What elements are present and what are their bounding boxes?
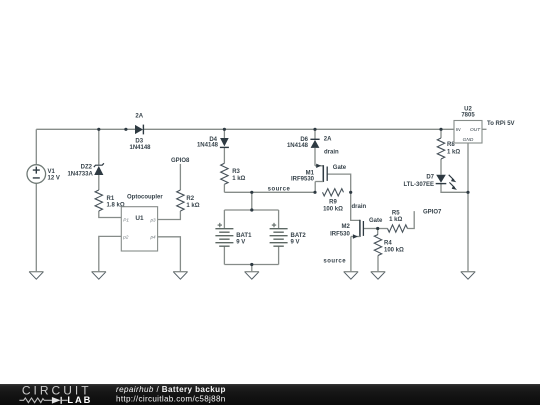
zener diode DZ2 1N4733A bbox=[67, 163, 103, 177]
wire battery tee down bbox=[251, 192, 253, 210]
svg-text:12 V: 12 V bbox=[48, 176, 60, 182]
svg-text:1 kΩ: 1 kΩ bbox=[186, 203, 199, 209]
node junction bbox=[97, 128, 100, 131]
wire M2 source to ground bbox=[350, 237, 352, 272]
wire M1 source to rail bbox=[314, 182, 316, 193]
wire V1 top stem bbox=[35, 129, 37, 164]
svg-text:V1: V1 bbox=[48, 169, 56, 175]
node junction bbox=[313, 128, 316, 131]
svg-text:100 kΩ: 100 kΩ bbox=[323, 207, 343, 213]
wire U1 pin4 to ground bbox=[158, 237, 181, 272]
svg-text:2A: 2A bbox=[324, 137, 332, 143]
battery BAT1 9V bbox=[215, 223, 252, 246]
wire D4 branch from rail bbox=[223, 129, 225, 138]
svg-text:U1: U1 bbox=[135, 215, 144, 222]
ground bbox=[173, 272, 187, 280]
battery BAT2 9V bbox=[270, 223, 307, 246]
optocoupler U1 bbox=[121, 194, 163, 251]
wire U2 OUT stub bbox=[482, 128, 487, 130]
wire battery bottom bar bbox=[224, 264, 278, 266]
svg-text:BAT2: BAT2 bbox=[291, 233, 307, 239]
ground bbox=[29, 272, 43, 280]
svg-text:source: source bbox=[268, 186, 291, 192]
diode D3 1N4148 2A bbox=[129, 114, 151, 152]
svg-text:Optocoupler: Optocoupler bbox=[127, 194, 163, 200]
node junction bbox=[439, 128, 442, 131]
wire D4 cathode to R3 bbox=[223, 147, 225, 163]
node junction bbox=[376, 227, 379, 230]
wire M2 gate lead to node bbox=[363, 228, 377, 230]
wire DZ2 branch from rail bbox=[98, 129, 100, 164]
node junction bbox=[250, 191, 253, 194]
svg-text:IRF9530: IRF9530 bbox=[291, 176, 315, 182]
svg-text:R1: R1 bbox=[107, 196, 115, 202]
LED D7 LTL-307EE bbox=[403, 174, 457, 190]
svg-text:p3: p3 bbox=[149, 217, 156, 222]
svg-text:LTL-307EE: LTL-307EE bbox=[403, 182, 434, 188]
wire D6 branch from rail bbox=[314, 129, 316, 139]
wire R9 right to M2 drain bbox=[351, 192, 360, 220]
svg-text:P1: P1 bbox=[123, 217, 129, 222]
wire gate node to R4 bbox=[377, 229, 379, 235]
resistor R4 100k bbox=[374, 235, 404, 256]
svg-text:1N4148: 1N4148 bbox=[287, 143, 309, 149]
svg-text:2A: 2A bbox=[135, 114, 143, 120]
wire U1 pin2 to ground bbox=[99, 236, 122, 271]
svg-text:GPIO7: GPIO7 bbox=[423, 209, 442, 215]
wire R8 to D7 bbox=[440, 159, 442, 175]
svg-text:1N4733A: 1N4733A bbox=[67, 172, 93, 178]
wire BAT1 top stem bbox=[223, 210, 225, 229]
wire U2 GND to ground bbox=[467, 143, 469, 272]
wire top rail left (V1 to D3 anode) bbox=[36, 128, 135, 130]
svg-text:LAB: LAB bbox=[67, 395, 92, 405]
svg-text:1 kΩ: 1 kΩ bbox=[232, 176, 245, 182]
svg-text:100 kΩ: 100 kΩ bbox=[384, 247, 404, 253]
node junction bbox=[466, 191, 469, 194]
svg-text:p4: p4 bbox=[149, 235, 156, 240]
wire source rail bbox=[224, 191, 315, 193]
svg-text:7805: 7805 bbox=[461, 113, 475, 119]
svg-text:R5: R5 bbox=[392, 211, 400, 217]
resistor R2 1k bbox=[177, 190, 200, 211]
resistor R5 1k bbox=[388, 211, 408, 233]
resistor R9 100k bbox=[323, 189, 344, 213]
ground bbox=[371, 272, 385, 280]
wire M1 gate lead bbox=[327, 174, 351, 192]
svg-text:R9: R9 bbox=[329, 200, 337, 206]
wire D6 anode to M1 drain bbox=[314, 148, 316, 166]
svg-text:DZ2: DZ2 bbox=[81, 164, 93, 170]
svg-text:D7: D7 bbox=[426, 174, 434, 180]
node junction bbox=[313, 191, 316, 194]
voltage regulator U2 7805 bbox=[454, 106, 482, 143]
svg-text:1 kΩ: 1 kΩ bbox=[447, 149, 460, 155]
resistor R1 1.8k bbox=[95, 190, 125, 211]
svg-text:repairhub / Battery backup: repairhub / Battery backup bbox=[116, 385, 226, 394]
diode D4 1N4148 bbox=[197, 137, 229, 149]
wire GPIO8 stub above R2 bbox=[179, 164, 181, 190]
svg-text:1 kΩ: 1 kΩ bbox=[389, 217, 402, 223]
svg-text:GPIO8: GPIO8 bbox=[171, 158, 190, 164]
svg-text:R4: R4 bbox=[384, 241, 392, 247]
node junction bbox=[250, 263, 253, 266]
svg-text:http://circuitlab.com/c58j88n: http://circuitlab.com/c58j88n bbox=[116, 395, 226, 404]
svg-text:D3: D3 bbox=[135, 138, 143, 144]
svg-text:drain: drain bbox=[324, 150, 339, 156]
wire U1 pin3 to R2 bbox=[158, 211, 181, 220]
wire BAT2 bottom stem bbox=[278, 246, 280, 264]
node junction bbox=[124, 128, 127, 131]
wire battery to ground bbox=[251, 265, 253, 272]
svg-text:BAT1: BAT1 bbox=[236, 233, 252, 239]
svg-text:source: source bbox=[323, 259, 346, 265]
mosfet M1 IRF9530 bbox=[291, 164, 347, 183]
voltage source V1 bbox=[27, 165, 60, 184]
node junction bbox=[349, 191, 352, 194]
wire R4 to ground bbox=[377, 256, 379, 272]
wire gate node to R5 bbox=[378, 228, 388, 230]
svg-text:R3: R3 bbox=[232, 169, 240, 175]
svg-text:drain: drain bbox=[352, 204, 367, 210]
svg-text:OUT: OUT bbox=[470, 127, 481, 133]
wire battery top bar bbox=[224, 209, 278, 211]
wire top rail right (D3 cathode to U2 IN) bbox=[143, 128, 454, 130]
svg-text:1N4148: 1N4148 bbox=[129, 145, 151, 151]
wire rail to R8 bbox=[440, 129, 442, 138]
svg-text:R2: R2 bbox=[186, 196, 194, 202]
wire R1 to U1 pin1 bbox=[99, 211, 122, 218]
ground bbox=[461, 272, 475, 280]
wire D7 cathode to GND net bbox=[441, 184, 468, 193]
svg-text:M2: M2 bbox=[341, 224, 350, 230]
wire DZ2 anode to R1 bbox=[98, 175, 100, 190]
wire BAT1 bottom stem bbox=[223, 246, 225, 264]
node junction bbox=[223, 128, 226, 131]
svg-text:To RPi 5V: To RPi 5V bbox=[487, 121, 515, 127]
svg-text:IN: IN bbox=[456, 127, 461, 133]
wire V1 bottom stem bbox=[35, 183, 37, 271]
svg-text:9 V: 9 V bbox=[236, 239, 245, 245]
wire BAT2 top stem bbox=[278, 210, 280, 229]
node junction bbox=[250, 208, 253, 211]
ground bbox=[245, 272, 259, 280]
svg-text:Gate: Gate bbox=[369, 218, 383, 224]
diode D6 1N4148 2A bbox=[287, 137, 332, 150]
ground bbox=[344, 272, 358, 280]
wire R3 to source rail bbox=[223, 184, 225, 192]
svg-text:GND: GND bbox=[463, 137, 474, 143]
ground bbox=[92, 272, 106, 280]
mosfet M2 IRF530 bbox=[330, 218, 383, 239]
footer bar bbox=[0, 384, 540, 405]
svg-text:1N4148: 1N4148 bbox=[197, 143, 219, 149]
svg-text:M1: M1 bbox=[306, 170, 315, 176]
resistor R8 1k bbox=[437, 138, 460, 159]
svg-text:Gate: Gate bbox=[333, 165, 347, 171]
svg-text:U2: U2 bbox=[464, 106, 472, 112]
svg-text:9 V: 9 V bbox=[291, 239, 300, 245]
resistor R3 1k bbox=[221, 163, 246, 184]
svg-text:IRF530: IRF530 bbox=[330, 231, 350, 237]
footer logo CIRCUIT LAB bbox=[0, 384, 540, 405]
svg-text:p2: p2 bbox=[122, 235, 129, 240]
wire R5 to GPIO7 stub bbox=[408, 211, 415, 228]
